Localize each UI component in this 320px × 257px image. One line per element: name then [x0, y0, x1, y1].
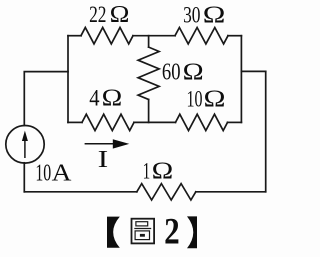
label 4ohm: [89, 85, 122, 112]
wire top rail left segment: [68, 35, 81, 37]
svg-text:Ω: Ω: [183, 58, 204, 85]
wire bottom return right segment: [196, 191, 266, 193]
label 22ohm: [89, 1, 129, 28]
wire left tap to source: [24, 72, 68, 126]
wire right box edge: [240, 36, 242, 123]
resistor R2 30ohm: [175, 28, 228, 44]
label 10A: [35, 159, 71, 186]
label 10ohm: [187, 85, 226, 112]
caption numeral 2: [164, 212, 180, 253]
wire bottom rail middle segment: [134, 121, 176, 123]
resistor R5 10ohm: [176, 114, 228, 130]
wire bottom rail left segment: [68, 121, 82, 123]
svg-text:Ω: Ω: [102, 85, 123, 112]
current source arrow: [22, 131, 28, 158]
svg-text:10: 10: [187, 86, 203, 112]
svg-text:Ω: Ω: [110, 1, 130, 28]
svg-text:22: 22: [89, 2, 106, 28]
wire right outer riser: [265, 71, 267, 191]
svg-text:1: 1: [143, 159, 151, 185]
wire right tap: [241, 70, 265, 72]
wire bottom rail right segment: [228, 121, 242, 123]
wire source bottom lead: [23, 163, 25, 192]
svg-text:4: 4: [89, 86, 100, 112]
svg-text:2: 2: [164, 212, 180, 253]
label 30ohm: [183, 2, 225, 29]
current source IS1 circle: [6, 126, 44, 164]
wire 60ohm top lead: [148, 36, 150, 47]
svg-text:I: I: [98, 146, 109, 173]
wire left box edge: [67, 36, 69, 123]
label 60ohm: [162, 58, 204, 85]
caption figure glyph: [132, 219, 155, 244]
svg-text:Ω: Ω: [203, 2, 226, 29]
resistor R6 1ohm: [137, 184, 196, 200]
wire bottom return left segment: [24, 191, 137, 193]
caption right bracket: [187, 216, 197, 248]
svg-text:10: 10: [35, 159, 51, 186]
resistor R3 60ohm: [138, 47, 159, 99]
svg-text:Ω: Ω: [152, 158, 174, 185]
label 1ohm: [143, 158, 174, 185]
svg-text:A: A: [52, 159, 72, 186]
resistor R1 22ohm: [81, 28, 133, 44]
svg-text:60: 60: [162, 58, 181, 85]
resistor R4 4ohm: [82, 114, 134, 130]
wire top rail middle segment: [133, 35, 175, 37]
wire top rail right segment: [228, 35, 241, 37]
current direction arrow I: [85, 139, 130, 148]
svg-text:Ω: Ω: [204, 85, 226, 112]
wire 60ohm bottom lead: [148, 100, 150, 123]
caption left bracket: [107, 217, 120, 248]
svg-text:30: 30: [183, 3, 200, 29]
